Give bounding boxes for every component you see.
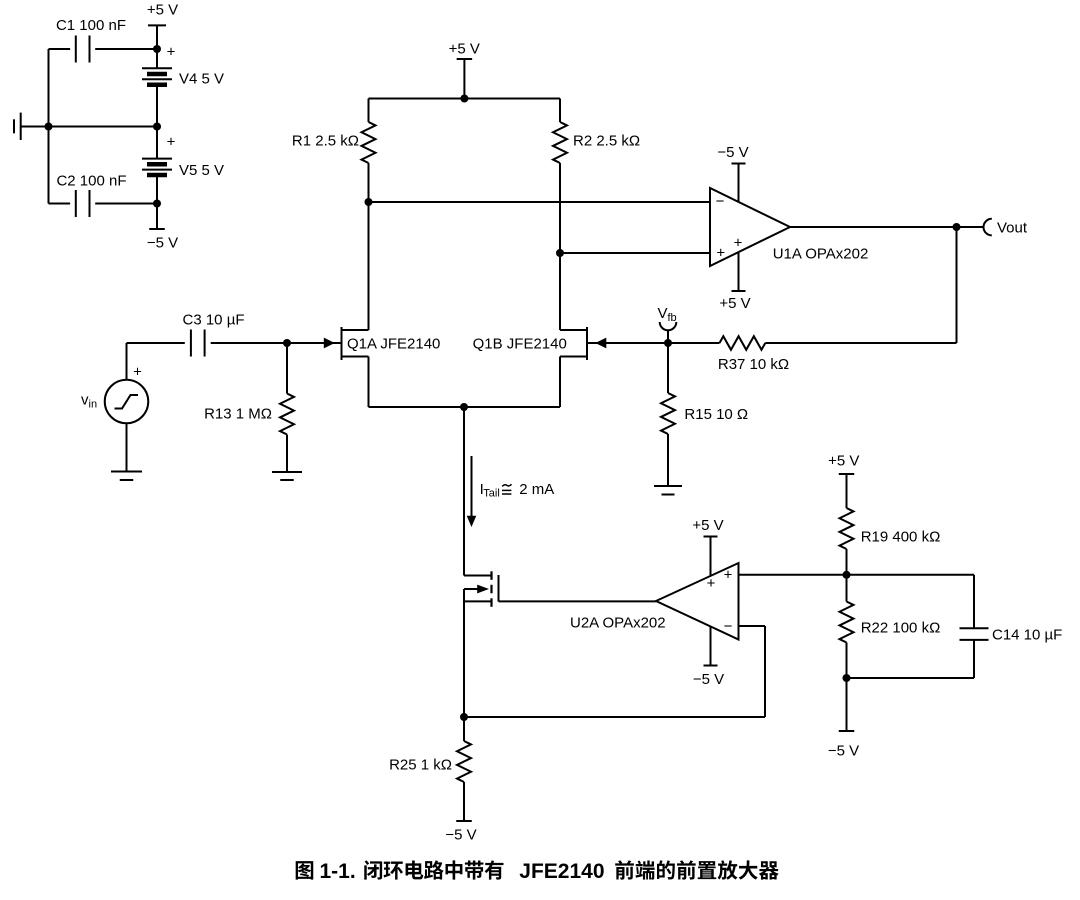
- svg-text:R37 10 kΩ: R37 10 kΩ: [718, 356, 789, 373]
- svg-text:+: +: [716, 244, 725, 261]
- svg-text:1-1.: 1-1.: [320, 860, 356, 883]
- svg-text:−: −: [724, 618, 733, 635]
- svg-text:+: +: [707, 575, 716, 592]
- svg-text:−5 V: −5 V: [147, 234, 178, 251]
- svg-text:R2 2.5 kΩ: R2 2.5 kΩ: [573, 132, 640, 149]
- svg-text:+5 V: +5 V: [449, 41, 480, 58]
- svg-text:+5 V: +5 V: [147, 2, 178, 19]
- svg-text:R13 1 MΩ: R13 1 MΩ: [204, 405, 272, 422]
- svg-text:R22 100 kΩ: R22 100 kΩ: [861, 619, 941, 636]
- svg-text:Tail: Tail: [483, 488, 500, 500]
- svg-text:−5 V: −5 V: [693, 671, 724, 688]
- svg-text:U1A OPAx202: U1A OPAx202: [773, 246, 869, 263]
- svg-text:−: −: [716, 193, 725, 210]
- svg-text:Q1B JFE2140: Q1B JFE2140: [473, 335, 567, 352]
- svg-text:U2A OPAx202: U2A OPAx202: [570, 614, 666, 631]
- svg-text:JFE2140: JFE2140: [519, 860, 604, 883]
- svg-text:fb: fb: [668, 312, 677, 324]
- svg-text:2 mA: 2 mA: [519, 481, 554, 498]
- svg-text:V4 5 V: V4 5 V: [179, 70, 224, 87]
- svg-text:+: +: [167, 134, 176, 151]
- svg-text:−5 V: −5 V: [828, 742, 859, 759]
- svg-text:C1 100 nF: C1 100 nF: [56, 17, 126, 34]
- svg-text:Vout: Vout: [997, 219, 1028, 236]
- svg-text:+: +: [734, 234, 743, 251]
- svg-text:R25 1 kΩ: R25 1 kΩ: [389, 756, 452, 773]
- svg-text:R1 2.5 kΩ: R1 2.5 kΩ: [292, 132, 359, 149]
- svg-text:Q1A JFE2140: Q1A JFE2140: [347, 335, 440, 352]
- svg-text:−5 V: −5 V: [445, 826, 476, 843]
- svg-text:C2 100 nF: C2 100 nF: [56, 173, 126, 190]
- svg-text:+5 V: +5 V: [828, 453, 859, 470]
- svg-text:+: +: [167, 44, 176, 61]
- svg-text:+: +: [724, 566, 733, 583]
- svg-text:V: V: [658, 305, 668, 322]
- svg-text:C3 10 µF: C3 10 µF: [183, 312, 245, 329]
- svg-text:C14 10 µF: C14 10 µF: [992, 626, 1062, 643]
- svg-text:+5 V: +5 V: [692, 517, 723, 534]
- svg-text:+5 V: +5 V: [719, 295, 750, 312]
- svg-text:in: in: [89, 399, 98, 411]
- svg-text:R19 400 kΩ: R19 400 kΩ: [861, 529, 941, 546]
- svg-text:−5 V: −5 V: [717, 144, 748, 161]
- svg-text:R15 10 Ω: R15 10 Ω: [684, 406, 748, 423]
- svg-text:V5 5 V: V5 5 V: [179, 162, 224, 179]
- svg-text:+: +: [133, 363, 142, 380]
